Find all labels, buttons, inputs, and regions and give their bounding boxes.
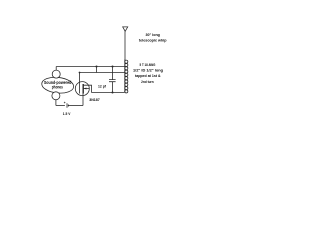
inductor L1 core line xyxy=(124,60,126,92)
capacitor C1 bottom lead xyxy=(112,82,114,93)
svg-text:tapped at 1st &: tapped at 1st & xyxy=(135,73,161,78)
node A rail/link junction xyxy=(95,65,97,67)
wire tap (2nd turn) to gate xyxy=(80,72,125,74)
phones ellipse xyxy=(41,76,74,95)
node B rail/cap junction xyxy=(111,65,113,67)
phones bottom terminal xyxy=(52,92,60,100)
wire phones bottom lead xyxy=(55,100,57,106)
transistor Q1 substrate line xyxy=(83,88,89,90)
capacitor C1 top lead xyxy=(112,67,114,80)
svg-text:12 pf: 12 pf xyxy=(98,83,107,88)
wire coil bottom to drain/cap xyxy=(92,92,125,93)
inductor L1 loops xyxy=(125,60,128,63)
battery B1 long plate xyxy=(66,103,68,108)
svg-text:1/2" ID 1/2" long: 1/2" ID 1/2" long xyxy=(133,68,164,73)
wire phones top lead xyxy=(55,67,57,71)
transistor Q1 drain lead xyxy=(83,85,91,92)
wire top rail xyxy=(56,66,125,68)
svg-text:5 T 18 AWG: 5 T 18 AWG xyxy=(140,62,156,67)
svg-text:+: + xyxy=(64,101,66,105)
svg-text:3N187: 3N187 xyxy=(89,97,100,102)
wire bottom rail left xyxy=(56,105,65,107)
transistor Q1 circle xyxy=(75,82,89,96)
svg-text:2nd turn: 2nd turn xyxy=(141,79,154,84)
wire antenna lead xyxy=(124,31,126,60)
svg-text:1.5 V: 1.5 V xyxy=(63,111,71,116)
battery B1 short plate xyxy=(67,105,69,107)
capacitor C1 plates xyxy=(109,80,116,82)
node D gate/tap corner junction xyxy=(79,72,81,74)
node C cap/bottom-wire junction xyxy=(111,91,113,93)
svg-text:30" long: 30" long xyxy=(146,32,161,37)
antenna xyxy=(123,27,128,31)
phones top terminal xyxy=(52,70,60,78)
wire link rail to tap wire xyxy=(96,67,98,73)
transistor Q1 source lead xyxy=(82,94,84,106)
wire bottom rail right xyxy=(68,105,83,107)
svg-text:telescopic whip: telescopic whip xyxy=(139,37,167,42)
transistor Q1 gate line xyxy=(79,73,81,94)
svg-text:phones: phones xyxy=(52,85,64,90)
transistor Q1 substrate arrow head xyxy=(84,88,87,90)
transistor Q1 channel xyxy=(82,84,84,94)
